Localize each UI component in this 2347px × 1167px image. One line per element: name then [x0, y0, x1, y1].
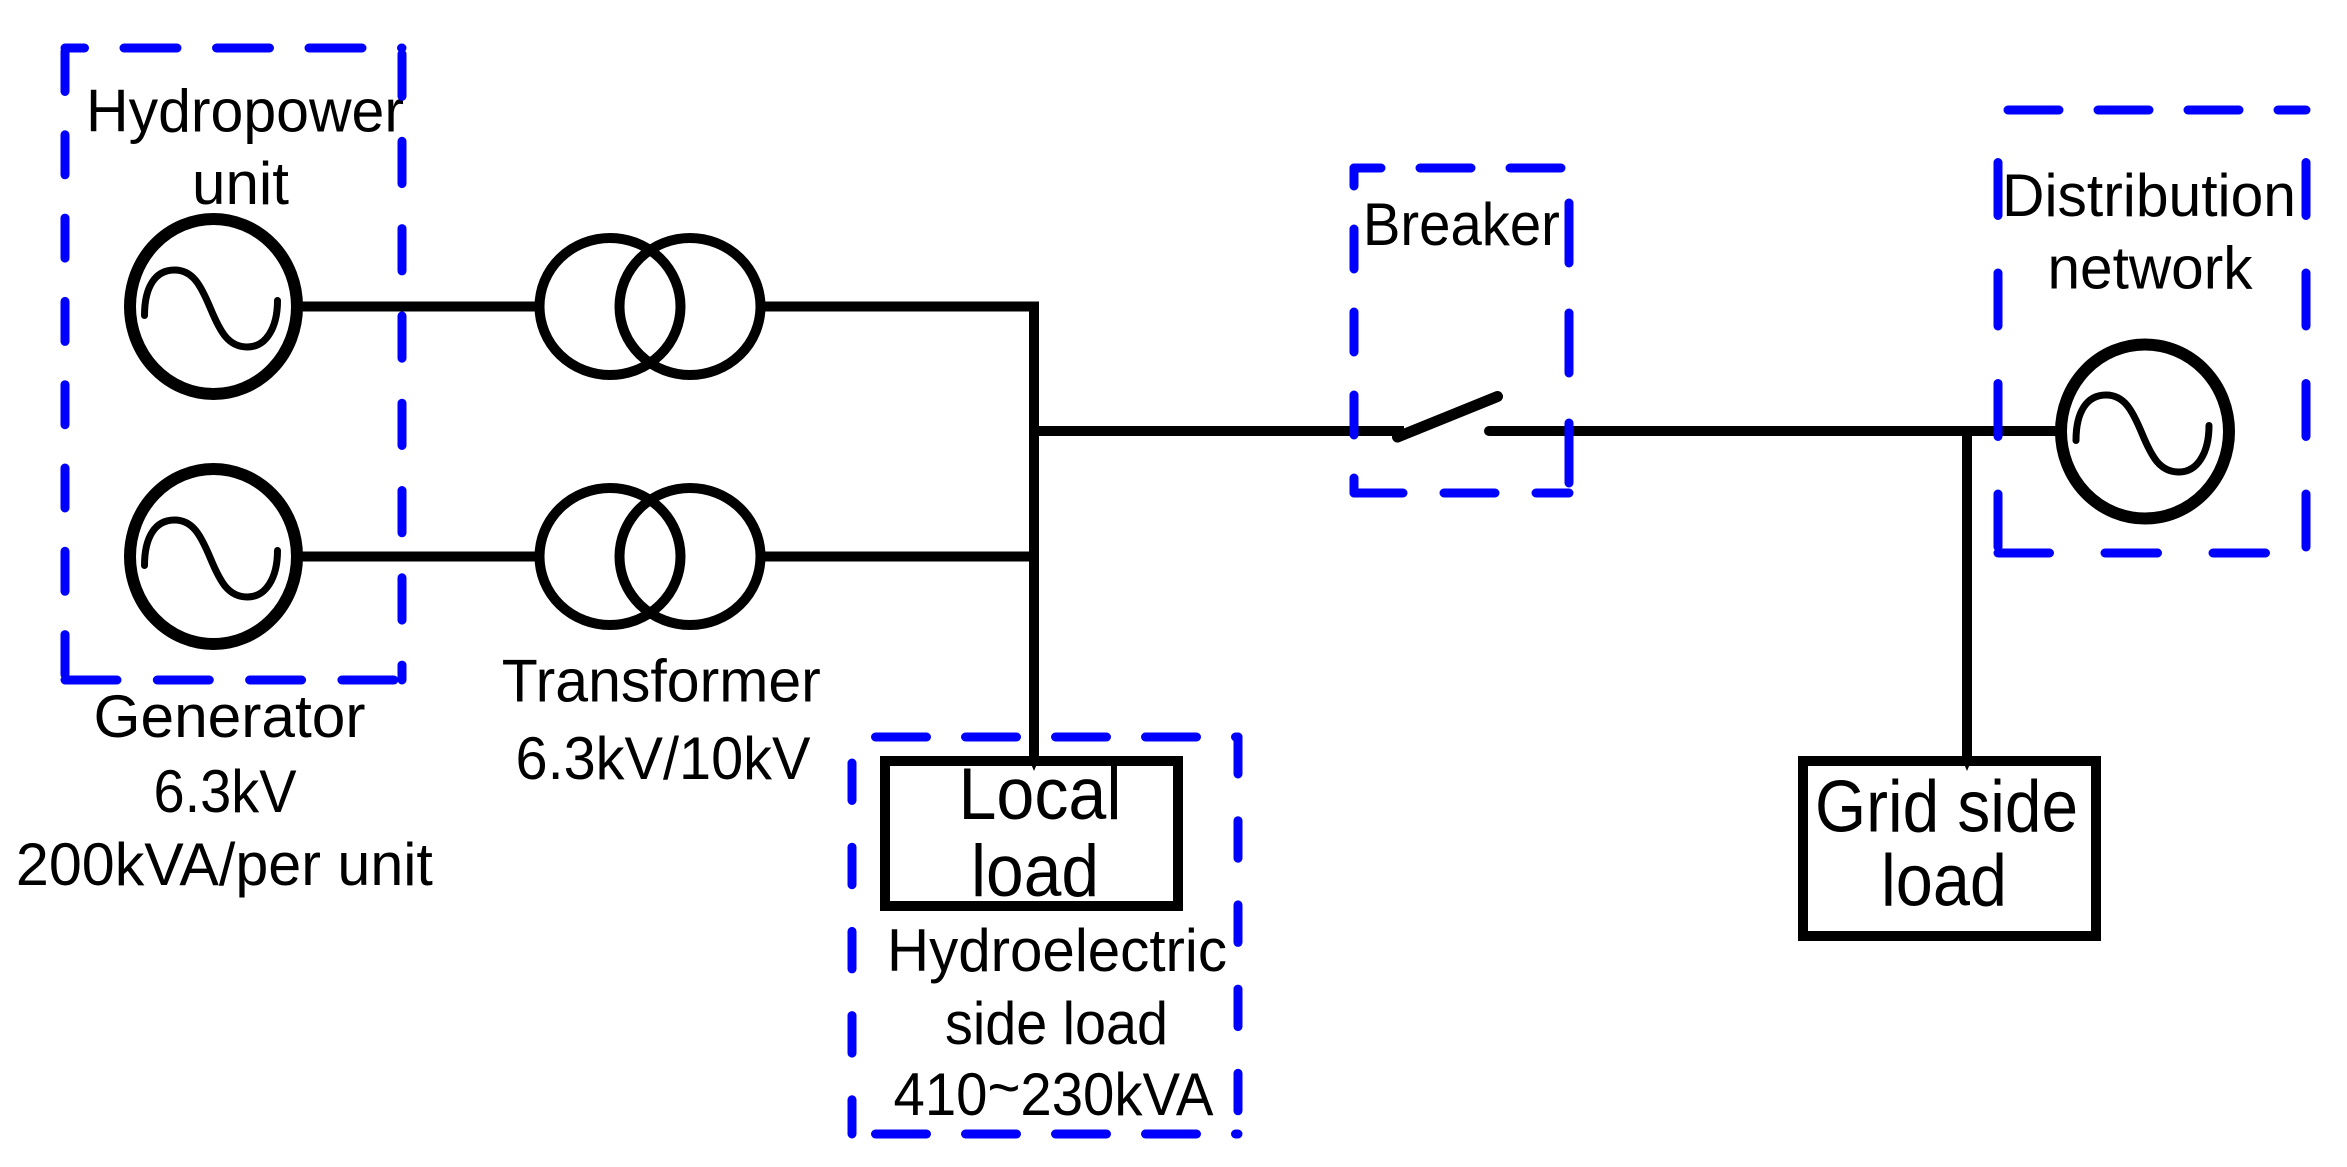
wire G2 to T2: [294, 552, 542, 562]
dashed box hydropower unit: [65, 48, 402, 680]
transformer T2: [540, 488, 761, 625]
local load box: [885, 761, 1178, 906]
dashed box distribution network: [1998, 110, 2306, 553]
wire G1 to T1: [294, 302, 542, 312]
svg-text:load: load: [971, 831, 1099, 912]
svg-text:Distribution: Distribution: [2002, 162, 2296, 229]
generator G2: [130, 469, 297, 644]
svg-text:Hydroelectric: Hydroelectric: [887, 917, 1227, 984]
svg-text:load: load: [1881, 841, 2007, 922]
svg-text:410~230kVA: 410~230kVA: [894, 1054, 1214, 1128]
svg-text:6.3kV/10kV: 6.3kV/10kV: [516, 725, 811, 792]
svg-text:side load: side load: [945, 990, 1168, 1057]
wire breaker to distribution: [1489, 426, 2058, 436]
dashed box breaker: [1354, 168, 1569, 493]
wire T1 to bus and bus down to local load: [763, 307, 1034, 760]
dashed box hydroelectric side load: [852, 737, 1238, 1134]
node wire tip into grid side load box: [1962, 759, 1972, 771]
node wire tip into local load box: [1029, 759, 1039, 771]
breaker switch arm: [1398, 397, 1498, 438]
grid side load box: [1803, 761, 2096, 936]
svg-text:network: network: [2048, 235, 2254, 302]
svg-text:unit: unit: [192, 150, 289, 217]
wire T2 to bus: [763, 552, 1039, 562]
svg-text:Hydropower: Hydropower: [86, 78, 404, 145]
svg-text:Local: Local: [959, 754, 1122, 835]
wire bus to breaker: [1029, 426, 1404, 436]
AC source distribution network: [2061, 345, 2229, 519]
svg-text:6.3kV: 6.3kV: [154, 758, 297, 825]
generator G1: [130, 219, 297, 394]
svg-text:Generator: Generator: [94, 683, 366, 750]
node T junction to grid side load: [1962, 431, 1972, 759]
transformer T1: [540, 238, 761, 375]
svg-text:Transformer: Transformer: [502, 648, 821, 715]
svg-text:Grid side: Grid side: [1815, 767, 2078, 848]
svg-text:200kVA/per unit: 200kVA/per unit: [16, 831, 433, 898]
svg-text:Breaker: Breaker: [1363, 191, 1560, 258]
